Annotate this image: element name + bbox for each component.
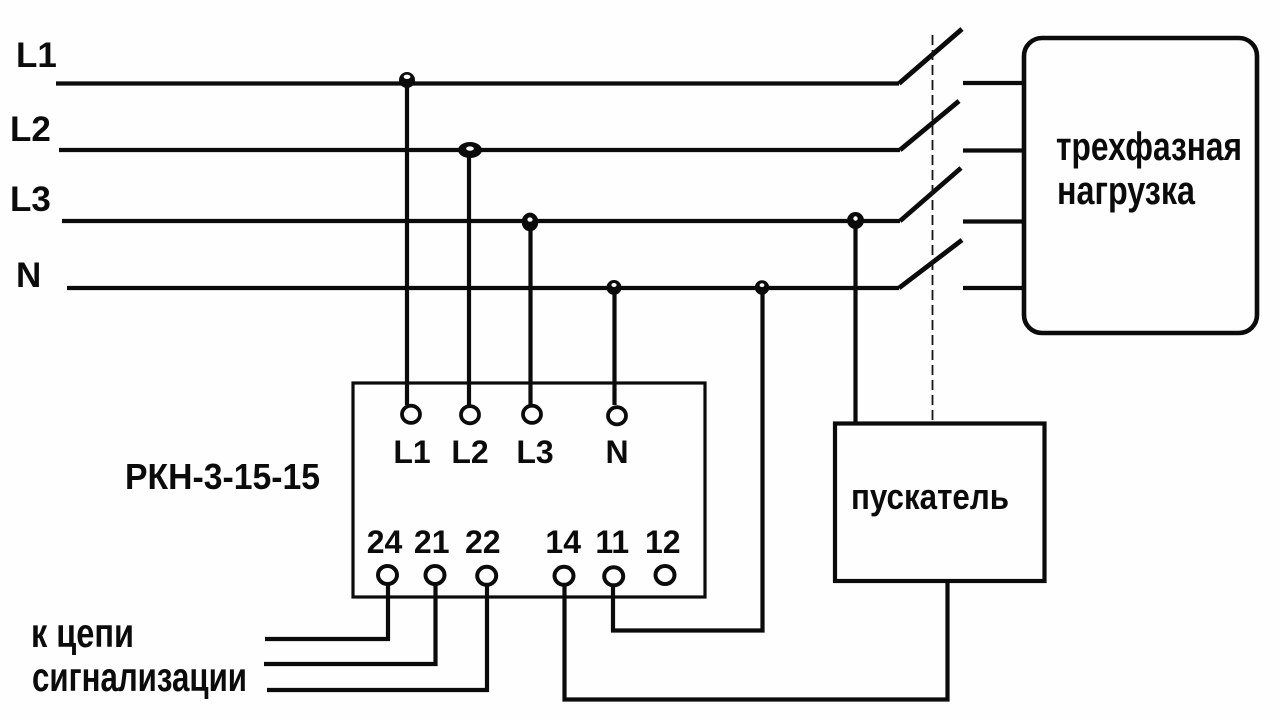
relay terminal L1 (top) (402, 406, 420, 423)
relay terminal N (top) (608, 407, 626, 424)
wire terminal 22 to signal circuit (267, 584, 487, 690)
wire terminal 11 to N bus (613, 288, 763, 631)
switch contact K1.2 blade (L2 pole of contactor) (900, 101, 959, 150)
svg-text:РКН-3-15-15: РКН-3-15-15 (125, 456, 320, 497)
wire L2 fixed contact to load (963, 148, 1024, 152)
node junction L3 tap (522, 213, 539, 232)
svg-text:L3: L3 (10, 180, 51, 219)
wire N fixed contact to load (963, 286, 1024, 290)
svg-text:L1: L1 (393, 434, 430, 470)
wire L1 fixed contact to load (963, 81, 1024, 85)
svg-text:пускатель: пускатель (851, 476, 1009, 517)
node junction N tap (607, 280, 622, 295)
svg-text:22: 22 (465, 524, 501, 560)
svg-text:21: 21 (414, 524, 450, 560)
node junction L3 to contactor wire (847, 212, 864, 229)
relay terminal L2 (top) (461, 406, 479, 423)
svg-text:L2: L2 (451, 434, 488, 470)
svg-text:нагрузка: нагрузка (1057, 169, 1196, 213)
svg-text:L1: L1 (16, 36, 57, 75)
wire bus L3 (62, 219, 900, 223)
wire N tap down to relay terminal N (612, 288, 616, 405)
svg-text:N: N (605, 434, 628, 470)
svg-text:N: N (16, 256, 41, 295)
wire bus N (67, 286, 899, 290)
svg-text:сигнализации: сигнализации (32, 654, 247, 700)
switch contact K1.1 blade (L1 pole of contactor) (899, 29, 962, 84)
load box (трехфазная нагрузка) (1024, 38, 1257, 333)
relay terminal L3 (top) (523, 406, 541, 423)
wire L2 tap down to relay terminal L2 (467, 150, 471, 405)
relay terminal 12 (bottom) (656, 566, 675, 584)
wire L1 tap down to relay terminal L1 (405, 84, 409, 406)
svg-text:24: 24 (367, 524, 403, 560)
node junction L1 tap (399, 72, 415, 88)
svg-text:12: 12 (645, 524, 681, 560)
svg-text:L2: L2 (10, 110, 51, 149)
relay terminal 24 (bottom) (378, 566, 397, 584)
relay terminal 22 (bottom) (477, 567, 496, 585)
svg-text:L3: L3 (516, 434, 553, 470)
relay box РКН-3-15-15 (353, 383, 705, 597)
switch contact K1.4 blade (N pole of contactor) (899, 240, 962, 288)
mechanical linkage dashed line of contactor (932, 35, 934, 422)
svg-text:трехфазная: трехфазная (1056, 125, 1242, 169)
wire L3 tap down to relay terminal L3 (528, 221, 532, 405)
relay terminal 11 (bottom) (604, 567, 623, 585)
svg-text:к цепи: к цепи (31, 610, 134, 656)
wire terminal 21 to signal circuit (264, 584, 436, 664)
svg-text:11: 11 (595, 524, 629, 560)
wire terminal 14 to contactor coil (565, 581, 948, 700)
wire bus L2 (59, 148, 900, 152)
wire L3 tap to contactor coil (853, 221, 857, 423)
wire L3 fixed contact to load (963, 219, 1024, 223)
wire terminal 24 to signal circuit (265, 584, 388, 639)
switch contact K1.3 blade (L3 pole of contactor) (900, 168, 961, 221)
node junction N to terminal 11 wire (755, 280, 769, 294)
relay terminal 21 (bottom) (426, 566, 445, 584)
contactor box (пускатель) (835, 424, 1045, 582)
wire bus L1 (56, 81, 899, 85)
relay terminal 14 (bottom) (555, 567, 574, 585)
svg-text:14: 14 (545, 524, 581, 560)
node junction L2 tap (458, 142, 482, 158)
